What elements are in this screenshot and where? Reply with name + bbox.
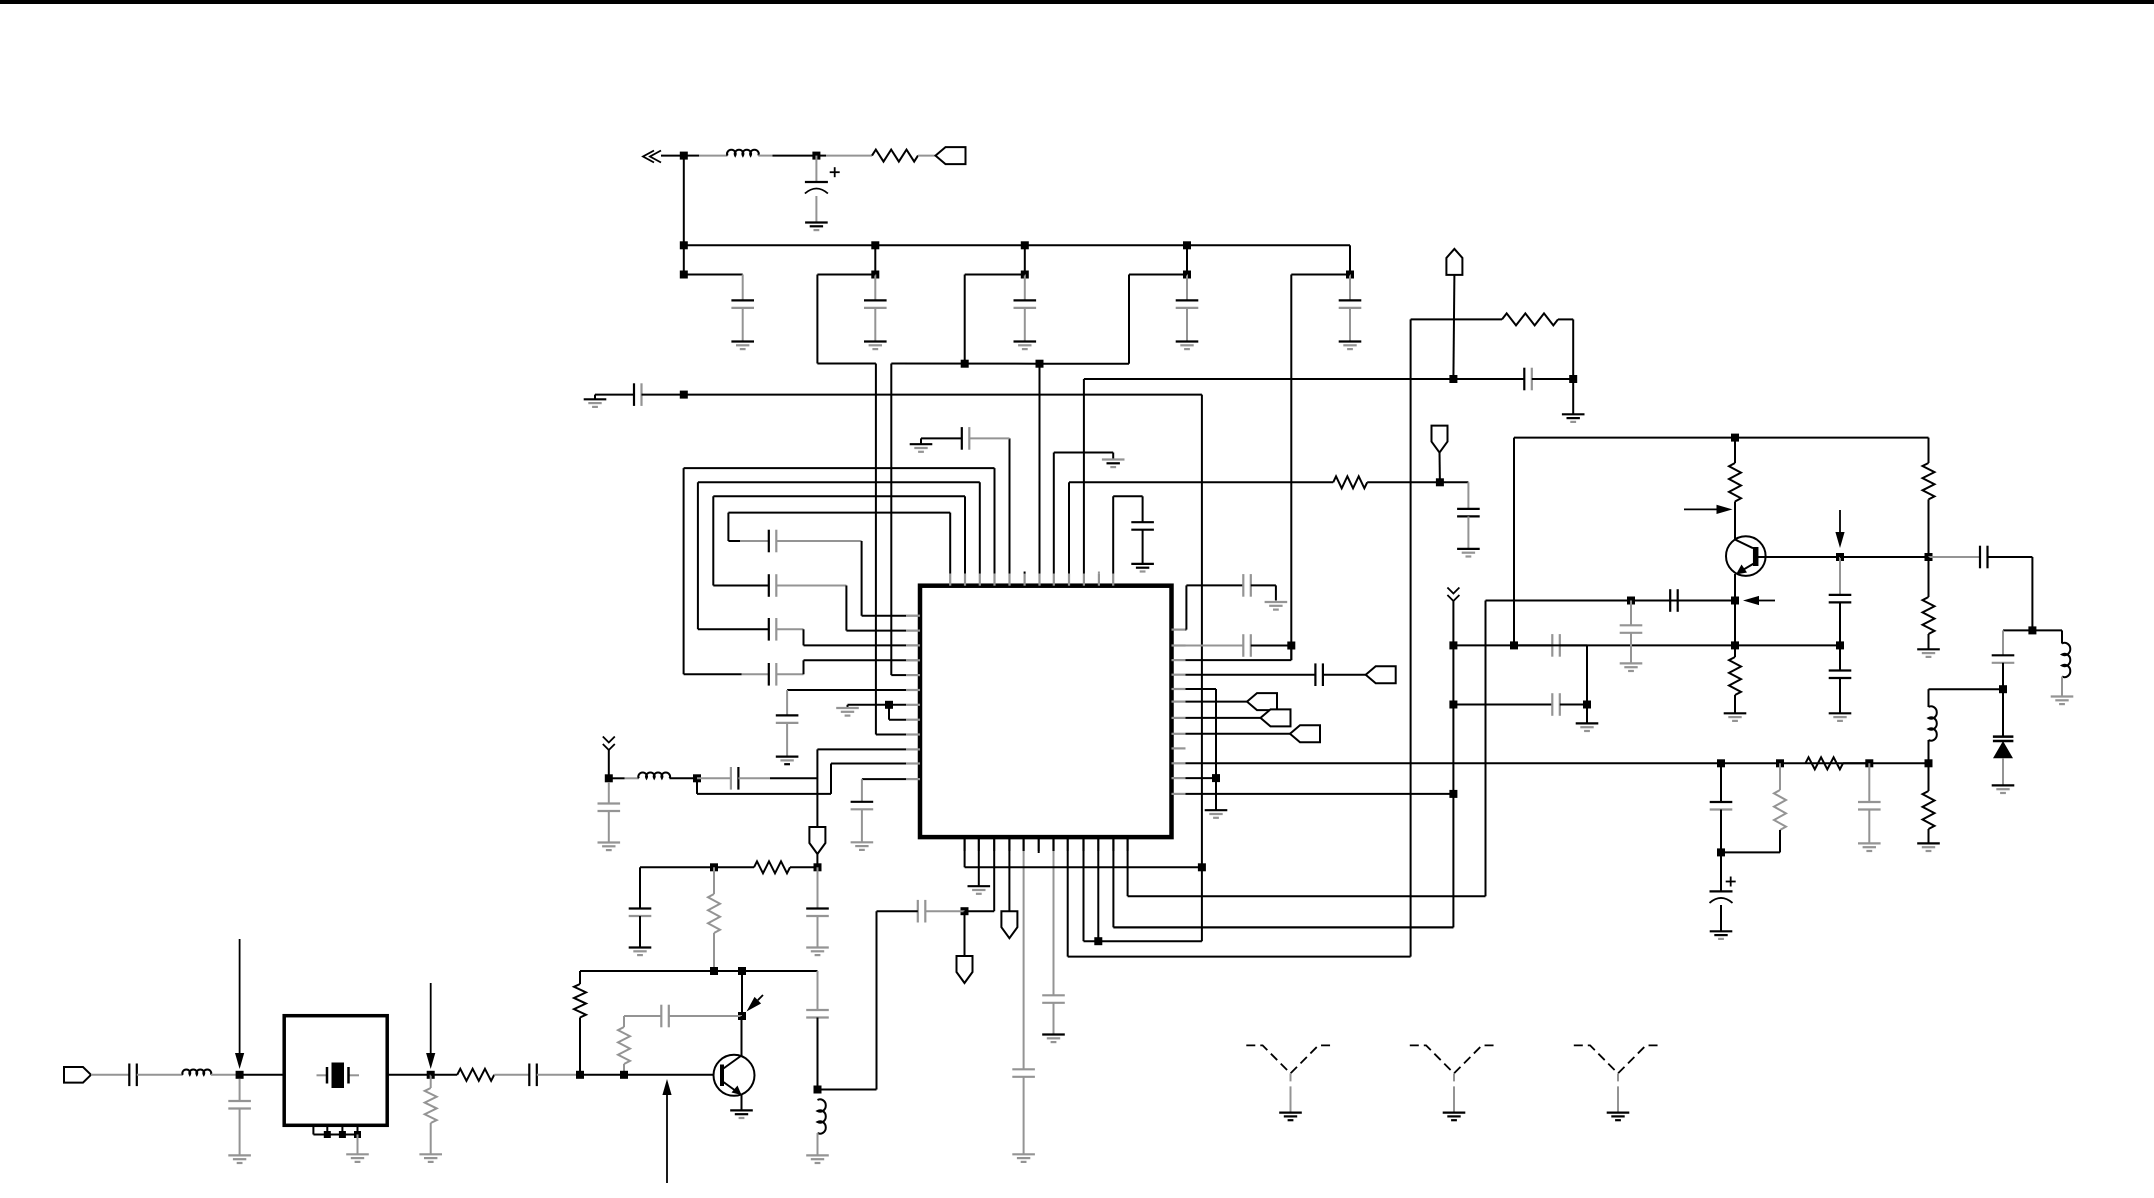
wire y645 row (1514, 644, 1840, 646)
capacitor C6 (1339, 299, 1362, 301)
wire (815, 156, 817, 182)
capacitor C16 (776, 714, 799, 716)
capacitor C19 (730, 767, 732, 790)
wire (728, 540, 740, 542)
IC U1 bottom pin 12 (1126, 837, 1128, 851)
wire (239, 1079, 241, 1101)
wire (776, 540, 861, 542)
wire (579, 1018, 581, 1076)
capacitor C32 (1314, 663, 1316, 686)
wire (1734, 438, 1736, 463)
resistor R2 (1333, 476, 1367, 488)
wire (969, 437, 1009, 439)
IC U1 left pin 5 (906, 674, 920, 676)
wire (817, 867, 819, 908)
junction (1449, 641, 1457, 649)
ground (1205, 809, 1228, 811)
wire (1839, 557, 1841, 595)
wire pin B4 (1008, 851, 1010, 911)
wire (579, 971, 581, 984)
wire (1467, 516, 1469, 549)
resistor R4 (708, 894, 720, 933)
wire (890, 364, 892, 676)
wire pin B2 (978, 851, 980, 886)
wire (1186, 245, 1188, 274)
wire (874, 245, 876, 274)
wire (2032, 629, 2062, 631)
IC U1 top pin 10 (1083, 574, 1085, 586)
wire (876, 911, 878, 1089)
junction (354, 1131, 361, 1138)
junction (1836, 553, 1844, 561)
wire (698, 628, 769, 630)
junction (2028, 626, 2036, 634)
wire (1439, 451, 1441, 482)
wire (714, 866, 754, 868)
off-page chevron J3 (down) (1447, 588, 1459, 594)
wire (1040, 363, 1130, 365)
wire (1558, 318, 1573, 320)
wire pin L9 (876, 734, 906, 736)
wire (817, 274, 875, 276)
wire (776, 628, 803, 630)
wire loop pin T4 (994, 468, 996, 574)
junction (1036, 360, 1044, 368)
IC U1 right pin 4 (1172, 674, 1186, 676)
wire (1349, 308, 1351, 342)
wire (816, 854, 818, 867)
wire (817, 363, 876, 365)
capacitor C31 (1242, 634, 1244, 657)
IC U1 top pin 6 nc stub (1024, 572, 1026, 574)
ground (805, 221, 828, 223)
junction (1198, 863, 1206, 871)
wire pin R12 net (1186, 793, 1454, 795)
inductor L4 (182, 1070, 211, 1075)
wire (430, 1075, 432, 1088)
IC U1 top pin 11 nc stub (1098, 572, 1100, 574)
wire pin B10 (1097, 851, 1099, 941)
ground (1339, 340, 1362, 342)
junction (427, 1071, 435, 1079)
resistor R15 (1923, 791, 1935, 829)
capacitor C42 (electrolytic) (1710, 890, 1733, 892)
wire (431, 1074, 458, 1076)
wire pin T10 net (1083, 379, 1085, 574)
wire (387, 1074, 431, 1076)
wire (965, 274, 1025, 276)
wire (1928, 499, 1930, 557)
ground (806, 1154, 829, 1156)
resistor R11 (1923, 463, 1935, 499)
junction (1865, 759, 1873, 767)
junction (814, 1086, 822, 1094)
wire (818, 1089, 877, 1091)
ground (1131, 563, 1154, 565)
transistor Q1 (714, 1055, 755, 1096)
wire (964, 911, 966, 956)
wire (1928, 763, 1930, 791)
IC U1 left pin 1 (906, 615, 920, 617)
wire (608, 811, 610, 843)
junction (1836, 641, 1844, 649)
wire (741, 971, 743, 1016)
IC U1 right pin 2 (1172, 644, 1186, 646)
wire loop pin T2 (964, 496, 966, 573)
wire pin R10 rail RXO (1186, 762, 1929, 764)
junction (1731, 597, 1739, 605)
wire (738, 777, 770, 779)
wire (594, 395, 596, 400)
wire (1129, 274, 1187, 276)
wire (684, 155, 699, 157)
ground (1576, 722, 1599, 724)
IC U1 right pin 7 (1172, 717, 1186, 719)
wire (1630, 633, 1632, 664)
wire (1988, 556, 2033, 558)
resistor R16 (1502, 313, 1558, 325)
wire (713, 585, 769, 587)
wire (639, 916, 641, 948)
capacitor C30 (1242, 574, 1244, 597)
wire (1053, 1003, 1055, 1035)
bus rail VCC (684, 244, 1350, 246)
capacitor C28 (1042, 994, 1065, 996)
wire (1630, 601, 1632, 626)
wire pin B7 column (1053, 851, 1055, 995)
capacitor C38 (1829, 669, 1852, 671)
IC U1 right pin 6 (1172, 700, 1186, 702)
resistor R14 (1805, 757, 1843, 769)
wire (683, 156, 685, 246)
junction (814, 863, 822, 871)
wire (758, 155, 772, 157)
transistor Q2 (1726, 536, 1766, 576)
wire (1868, 810, 1870, 844)
capacitor C27 (1012, 1068, 1035, 1070)
unpopulated antenna Y2 (1410, 1045, 1498, 1073)
wire pin T9 net VREF (1068, 482, 1070, 573)
capacitor C3 (864, 299, 887, 301)
inductor L2 (638, 772, 670, 778)
ground (2051, 695, 2074, 697)
wire (742, 308, 744, 342)
junction (324, 1131, 331, 1138)
junction (1510, 641, 1518, 649)
wire (817, 916, 819, 948)
wire pin R4 net (1186, 674, 1316, 676)
wire (742, 275, 744, 301)
IC U1 right pin 8 (1172, 733, 1186, 735)
capacitor C41 (1710, 801, 1733, 803)
wire pin L11 jog (831, 763, 906, 765)
wire cap row 2 (1453, 704, 1552, 706)
ground (1562, 413, 1585, 415)
wire pin B12 net (1127, 851, 1129, 896)
wire (713, 933, 715, 971)
wire (642, 394, 684, 396)
wire (1586, 705, 1588, 724)
IC U1 bottom pin 3 (993, 837, 995, 851)
IC pin stub L1 (906, 615, 920, 617)
wire net TUNE (1410, 319, 1412, 956)
junction (1212, 774, 1220, 782)
capacitor C7 (633, 383, 635, 406)
wire (713, 867, 715, 894)
wire (240, 1074, 285, 1076)
connector pentagon P4 (809, 827, 825, 854)
IC U1 bottom pin 10 (1097, 837, 1099, 851)
capacitor C21 (806, 907, 829, 909)
wire (2002, 689, 2004, 736)
junction (605, 774, 613, 782)
wire (1201, 867, 1203, 941)
IC U1 bottom pin 7 (1052, 837, 1054, 851)
ground (731, 340, 754, 342)
connector tag P1 (936, 147, 966, 164)
annotation arrow (1839, 510, 1841, 532)
wire (1928, 740, 1930, 763)
wire (741, 1016, 743, 1056)
wire net XN (891, 363, 1039, 365)
wire (211, 1074, 240, 1076)
junction (885, 701, 893, 709)
wire (861, 809, 863, 842)
IC U1 top pin 4 (993, 574, 995, 586)
wire (816, 155, 826, 157)
ground (1917, 648, 1940, 650)
resistor R5 (574, 984, 586, 1017)
wire pin R2 net (1186, 645, 1244, 647)
wire (1440, 481, 1469, 483)
connector pentagon P3 (1446, 249, 1462, 275)
capacitor C25 (228, 1100, 251, 1102)
wire (1840, 556, 1929, 558)
ground of Y2 (1443, 1111, 1466, 1113)
junction (236, 1071, 244, 1079)
connector tag P8 (1366, 666, 1396, 683)
wire (1513, 438, 1515, 646)
wire (2003, 629, 2032, 631)
wire (1720, 763, 1722, 802)
capacitor C36 (1620, 624, 1643, 626)
IC U1 top pin 8 (1053, 574, 1055, 586)
ground (776, 755, 799, 757)
capacitor C39 (1979, 546, 1981, 569)
top border bar (0, 0, 2154, 4)
wire (817, 1018, 819, 1090)
unpopulated antenna Y1 (1246, 1045, 1334, 1073)
junction (1583, 701, 1591, 709)
wire pin R8 net (1186, 733, 1291, 735)
diode D1 (varactor) (1993, 735, 2014, 738)
wire (1186, 275, 1188, 301)
wire pin L5 net (891, 674, 906, 676)
wire emitter cap row (1486, 600, 1736, 602)
wire (639, 867, 641, 908)
IC U1 left pin 12 (906, 778, 920, 780)
junction (871, 271, 879, 279)
capacitor C12 (961, 427, 963, 450)
resistor R13 (1774, 790, 1786, 830)
wire (1560, 644, 1587, 646)
junction (1449, 790, 1457, 798)
wire (1843, 762, 1869, 764)
polarity + of C42 (1726, 881, 1736, 883)
wire (1142, 530, 1144, 564)
IC U1 bottom pin 9 (1082, 837, 1084, 851)
junction (1717, 759, 1725, 767)
resistor R1 (872, 150, 918, 162)
IC U1 left pin 11 (906, 762, 920, 764)
ground (836, 707, 859, 709)
capacitor C4 (1014, 299, 1037, 301)
junction (1021, 241, 1029, 249)
wire (624, 1015, 661, 1017)
capacitor C34 (1551, 693, 1553, 716)
ground (1457, 548, 1480, 550)
crystal X1 symbol (317, 1074, 328, 1076)
IC U1 left pin 2 (906, 629, 920, 631)
wire (817, 1133, 819, 1155)
junction (680, 391, 688, 399)
resistor R12 (1923, 597, 1935, 634)
capacitor C20 (629, 907, 652, 909)
wire (239, 1109, 241, 1156)
junction (680, 241, 688, 249)
node A junction (680, 152, 688, 160)
capacitor C24 (128, 1064, 130, 1087)
wire pin R3 net (1290, 646, 1292, 661)
wire (1323, 674, 1366, 676)
wire (1113, 926, 1453, 928)
wire (697, 777, 731, 779)
capacitor C2 (731, 299, 754, 301)
wire pin B3 net (993, 851, 995, 911)
junction (1925, 553, 1933, 561)
junction (1449, 701, 1457, 709)
wire (661, 155, 684, 157)
connector tag P11 (1290, 725, 1320, 742)
IC U1 bottom pin 4 (1008, 837, 1010, 851)
wire (776, 585, 846, 587)
ground (730, 1109, 753, 1111)
IC U1 right pin 3 (1172, 659, 1186, 661)
junction (620, 1071, 628, 1079)
wire (1024, 245, 1026, 274)
junction (961, 360, 969, 368)
ground (851, 841, 874, 843)
junction (1569, 375, 1577, 383)
ground (1858, 842, 1881, 844)
inductor L5 (1929, 706, 1937, 740)
junction (961, 907, 969, 915)
IC U1 right pin 11 (1172, 777, 1186, 779)
capacitor C40 (1992, 654, 2015, 656)
resistor R3 (754, 861, 790, 873)
inductor L1 (727, 150, 759, 156)
capacitor C17 (851, 801, 874, 803)
wire (608, 750, 610, 778)
wire (1452, 601, 1454, 927)
wire base (1757, 556, 1841, 558)
wire (1779, 763, 1781, 790)
junction (1731, 641, 1739, 649)
wire (609, 777, 625, 779)
wire (817, 971, 819, 1010)
wire pin T8 (1053, 453, 1055, 574)
wire (874, 275, 876, 301)
wire (1453, 378, 1524, 380)
wire (1291, 274, 1350, 276)
junction (1346, 271, 1354, 279)
ground (1992, 784, 2015, 786)
annotation arrow (1759, 600, 1775, 602)
wire (1349, 245, 1351, 274)
ground (419, 1153, 442, 1155)
IC U1 left pin 4 (906, 659, 920, 661)
resistor R6 (618, 1027, 630, 1064)
wire (1251, 584, 1276, 586)
wire (1928, 557, 1930, 597)
wire pin B1 net (964, 851, 966, 867)
wire (1779, 830, 1781, 852)
resistor R7 (425, 1088, 437, 1123)
ground (806, 946, 829, 948)
junction (680, 271, 688, 279)
wire pin L8 (889, 719, 906, 721)
junction (1627, 597, 1635, 605)
inductor L3 (818, 1099, 826, 1133)
junction (1021, 271, 1029, 279)
IC U1 right pin 1 (1172, 628, 1186, 630)
junction (1436, 478, 1444, 486)
capacitor C8 (768, 663, 770, 686)
wire (1186, 308, 1188, 342)
wire pin B11 net (1112, 851, 1114, 927)
ground (1012, 1153, 1035, 1155)
ground (968, 885, 991, 887)
connector tag P5 (64, 1067, 91, 1083)
wire (494, 1074, 529, 1076)
wire (580, 1074, 624, 1076)
IC U1 bottom pin 8 (1067, 837, 1069, 851)
junction (1183, 271, 1191, 279)
IC U1 bottom pin 6 nc stub (1038, 851, 1040, 853)
wire (1367, 481, 1440, 483)
junction (693, 774, 701, 782)
polarity + of C1 (830, 171, 840, 173)
ground (1917, 842, 1940, 844)
IC U1 top pin 3 (979, 574, 981, 586)
wire pin L7 net (848, 704, 907, 706)
resistor R9 (1729, 463, 1741, 501)
IC U1 top pin 11 (1098, 574, 1100, 586)
wire loop pin T1 (949, 513, 951, 574)
junction (1731, 434, 1739, 442)
wire pin R7 net (1186, 717, 1261, 719)
IC U1 right pin 5 (1172, 688, 1186, 690)
wire (2061, 677, 2063, 697)
IC U1 top pin 1 (949, 574, 951, 586)
ground of Y3 (1607, 1111, 1630, 1113)
ground of Y1 (1279, 1111, 1302, 1113)
wire (1453, 275, 1454, 379)
capacitor C23 (806, 1009, 829, 1011)
wire (684, 274, 743, 276)
junction (738, 1012, 746, 1020)
wire pin B8 net (1067, 851, 1069, 957)
